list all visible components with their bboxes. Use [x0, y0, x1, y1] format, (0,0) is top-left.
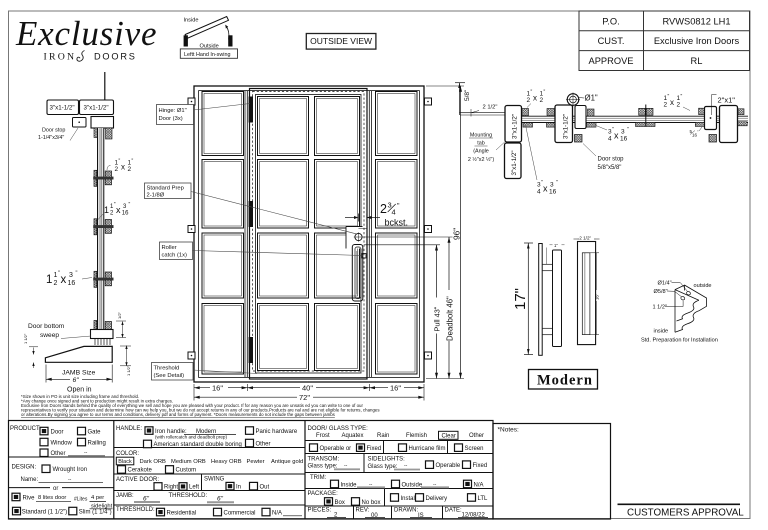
svg-text:72": 72" [299, 393, 310, 402]
right sidelight glass panels [376, 92, 418, 375]
svg-text:1-1/4"x3/4": 1-1/4"x3/4" [38, 135, 64, 141]
2 1/2 dim above front view [574, 238, 600, 240]
left jamb section: header label boxes [47, 100, 114, 115]
label threshold [152, 363, 258, 381]
svg-text:(with rollercatch and deadbolt: (with rollercatch and deadbolt prep) [155, 435, 227, 440]
svg-text:Other: Other [51, 451, 66, 457]
door stop label [38, 128, 78, 142]
hatch cluster 3 [93, 271, 113, 287]
svg-text:96": 96" [451, 228, 461, 240]
svg-text:outside: outside [694, 283, 712, 289]
svg-text:DOOR/ GLASS TYPE:: DOOR/ GLASS TYPE: [308, 426, 369, 432]
svg-text:THRESHOLD:: THRESHOLD: [116, 507, 155, 513]
customers approval [618, 503, 741, 505]
dim deadbolt 46 [448, 237, 450, 379]
svg-text:Frost: Frost [316, 433, 330, 439]
svg-text:DOORS: DOORS [94, 52, 137, 62]
svg-text:or alterations.By signing you: or alterations.By signing you agree to o… [21, 412, 336, 417]
svg-text:THRESHOLD:: THRESHOLD: [169, 493, 208, 499]
svg-text:JAMB:: JAMB: [116, 493, 134, 499]
svg-text:Delivery: Delivery [426, 496, 448, 502]
left sidelight glass panels [202, 92, 244, 375]
svg-text:CUSTOMERS APPROVAL: CUSTOMERS APPROVAL [627, 508, 744, 519]
svg-text:No box: No box [362, 500, 381, 506]
svg-text:PACKAGE:: PACKAGE: [308, 491, 339, 497]
roller catch mark [362, 254, 366, 259]
svg-text:2: 2 [664, 102, 668, 109]
5/16 label [690, 127, 703, 138]
leaf glass panels col2 [315, 97, 360, 371]
mullions [245, 91, 372, 378]
svg-text:x: x [121, 163, 125, 172]
title block [579, 11, 750, 71]
form grid [9, 421, 494, 520]
svg-text:Glass type:: Glass type: [368, 464, 398, 470]
svg-text:REV:: REV: [356, 508, 370, 514]
svg-text:x: x [533, 94, 537, 103]
right jamb small tube 2x1 [705, 107, 717, 130]
svg-text:x: x [116, 205, 121, 215]
svg-text:Threshold: Threshold [154, 366, 180, 372]
svg-text:Custom: Custom [176, 468, 197, 474]
svg-text:4: 4 [537, 189, 541, 196]
mounting tab label [468, 133, 495, 164]
svg-text:bckst.: bckst. [385, 218, 409, 228]
svg-text:--: -- [404, 463, 408, 469]
svg-text:2: 2 [115, 166, 119, 173]
svg-text:x: x [614, 131, 619, 141]
svg-text:Hinge: Ø1": Hinge: Ø1" [159, 108, 187, 114]
svg-text:Door stop: Door stop [42, 128, 65, 134]
svg-text:2: 2 [380, 202, 387, 216]
mounting tabs elevation [188, 98, 432, 359]
svg-text:6": 6" [73, 377, 80, 384]
svg-text:2: 2 [527, 97, 531, 104]
svg-text:inside: inside [654, 329, 669, 335]
svg-text:LTL: LTL [478, 496, 489, 502]
svg-text:Fixed: Fixed [367, 446, 382, 452]
mounting tab angle leg [460, 112, 476, 114]
svg-text:16: 16 [549, 189, 557, 196]
svg-text:Leftt Hand In-swing: Leftt Hand In-swing [184, 52, 230, 58]
svg-text:--: -- [433, 481, 437, 487]
label 1-1/2 x 3/16 (small) [98, 202, 131, 220]
pull handle [352, 245, 363, 302]
svg-text:DRAWN:: DRAWN: [394, 508, 418, 514]
svg-text:1": 1" [554, 243, 558, 248]
svg-text:Right: Right [164, 485, 178, 491]
svg-text:2"x1": 2"x1" [718, 96, 736, 105]
svg-text:16": 16" [212, 384, 223, 393]
svg-text:*Notes:: *Notes: [498, 427, 520, 434]
svg-text:(See Detail): (See Detail) [154, 373, 185, 379]
svg-text:1 1/2": 1 1/2" [23, 333, 28, 344]
svg-text:Standard Prep: Standard Prep [147, 186, 184, 192]
svg-text:HANDLE:: HANDLE: [116, 426, 142, 432]
door bottom sweep label [28, 323, 91, 339]
svg-text:Door bottom: Door bottom [28, 323, 65, 330]
svg-text:Door stop: Door stop [598, 157, 625, 163]
svg-text:5/8": 5/8" [464, 89, 471, 101]
svg-text:In: In [236, 484, 241, 490]
door bottom sweep box [91, 330, 114, 339]
svg-text:--: -- [84, 450, 88, 456]
svg-text:": " [681, 94, 683, 100]
svg-text:Wrought Iron: Wrought Iron [53, 467, 88, 473]
door stop hatched square [575, 135, 583, 143]
Modern box [529, 370, 598, 390]
svg-text:2-1/8Ø: 2-1/8Ø [147, 193, 165, 199]
fine print [21, 394, 380, 417]
svg-text:8 lites door: 8 lites door [38, 495, 66, 501]
svg-text:x: x [670, 98, 674, 107]
notes box [493, 424, 611, 520]
svg-text:16": 16" [390, 384, 401, 393]
svg-text:JAMB Size: JAMB Size [62, 370, 95, 377]
svg-text:3: 3 [621, 129, 625, 136]
mid mullion vline [645, 105, 647, 127]
svg-text:x: x [61, 274, 67, 286]
svg-text:2: 2 [54, 280, 58, 287]
door elevation outer frame [194, 86, 424, 382]
label roller catch [160, 242, 364, 260]
svg-text:Rive: Rive [23, 496, 36, 502]
svg-text:Railing: Railing [88, 441, 106, 447]
svg-text:Door (3x): Door (3x) [159, 116, 183, 122]
svg-text:Roller: Roller [162, 245, 177, 251]
svg-text:Flemish: Flemish [406, 433, 427, 439]
svg-text:Other: Other [469, 433, 484, 439]
svg-text:40": 40" [302, 384, 313, 393]
door leaf [250, 89, 368, 380]
rail horizontal [522, 116, 749, 122]
svg-text:Slim (1 1/4"): Slim (1 1/4") [79, 510, 112, 516]
label 3/4x3/16 top [596, 126, 629, 143]
svg-text:--: -- [344, 463, 348, 469]
svg-text:Other: Other [256, 441, 271, 447]
svg-text:2 1/2": 2 1/2" [579, 236, 591, 241]
svg-text:1: 1 [104, 205, 109, 215]
svg-text:Operable: Operable [436, 463, 461, 469]
svg-text:Door: Door [51, 430, 64, 436]
svg-text:Operable or: Operable or [320, 446, 352, 452]
svg-text:16: 16 [620, 136, 628, 143]
label 1/2x1/2 right [664, 94, 691, 111]
vertical rail [98, 128, 104, 331]
svg-text:Window: Window [51, 441, 73, 447]
svg-text:Clear: Clear [442, 434, 456, 440]
svg-text:Pull 43": Pull 43" [433, 306, 442, 331]
svg-text:N/A: N/A [272, 511, 282, 517]
svg-text:RVWS0812 LH1: RVWS0812 LH1 [662, 16, 730, 26]
svg-text:Box: Box [335, 500, 345, 506]
svg-text:Left: Left [189, 485, 199, 491]
leaf glass panels col1 [258, 97, 309, 371]
svg-text:Inside: Inside [184, 18, 199, 24]
svg-text:Fixed: Fixed [473, 463, 488, 469]
svg-text:Screen: Screen [465, 446, 484, 452]
svg-text:4 per: 4 per [91, 495, 104, 501]
svg-text:IRON: IRON [44, 52, 77, 63]
svg-text:DESIGN:: DESIGN: [12, 465, 37, 471]
svg-text:TRIM:: TRIM: [310, 475, 327, 481]
svg-text:catch (1x): catch (1x) [162, 253, 188, 259]
svg-text:2: 2 [128, 166, 132, 173]
svg-text:1: 1 [54, 272, 58, 279]
svg-text:N/A: N/A [474, 482, 484, 488]
hatch cluster 1 [93, 170, 113, 186]
label 1/2x1/2 [107, 159, 134, 174]
svg-text:Exclusive Iron Doors: Exclusive Iron Doors [654, 36, 740, 46]
svg-text:sweep: sweep [40, 332, 59, 339]
svg-text:APPROVE: APPROVE [589, 56, 634, 66]
svg-text:1 1/2": 1 1/2" [653, 305, 667, 311]
handle side view [539, 244, 562, 356]
svg-text:SWING: SWING [204, 477, 225, 483]
svg-text:1: 1 [46, 274, 52, 286]
svg-text:tab: tab [477, 141, 485, 147]
svg-text:CUST.: CUST. [598, 36, 625, 46]
svg-text:Aquatex: Aquatex [342, 433, 364, 439]
OUTSIDE VIEW label [306, 34, 376, 50]
svg-text:3: 3 [69, 272, 73, 279]
svg-text:16: 16 [68, 280, 76, 287]
backset dim 2-3/4 [345, 214, 380, 229]
svg-text:": " [556, 180, 558, 186]
bottom hatch at rail [94, 321, 97, 330]
svg-text:16: 16 [122, 211, 129, 217]
svg-text:Black: Black [118, 459, 132, 465]
svg-text:17": 17" [512, 288, 529, 310]
hinge circle [567, 94, 579, 106]
right dimension extension lines [364, 86, 465, 379]
label 3/4x3/16 below jamb [526, 125, 559, 196]
svg-text:x: x [543, 184, 548, 194]
svg-text:RL: RL [691, 56, 703, 66]
label 1-1/2 x 3/16 (big) [46, 271, 92, 288]
svg-text:Modern: Modern [537, 373, 593, 389]
svg-text:1/2": 1/2" [117, 311, 122, 319]
svg-text:Cerakote: Cerakote [128, 468, 153, 474]
label hinge [157, 104, 251, 125]
head jamb block [91, 117, 114, 129]
door stop small box [73, 118, 87, 128]
svg-text:Install: Install [401, 496, 417, 502]
svg-text:PIECES:: PIECES: [308, 508, 332, 514]
svg-text:Pewter: Pewter [247, 459, 265, 465]
door knob [354, 232, 363, 241]
svg-text:Outside: Outside [402, 482, 423, 488]
head door stop white box [575, 106, 586, 129]
svg-text:ACTIVE DOOR:: ACTIVE DOOR: [116, 477, 159, 483]
svg-text:Open in: Open in [67, 387, 92, 394]
svg-text:": " [76, 271, 78, 277]
svg-text:Deadbolt 46": Deadbolt 46" [445, 296, 454, 341]
svg-text:Standard (1 1/2"): Standard (1 1/2") [22, 510, 67, 516]
svg-text:2 1/2": 2 1/2" [483, 105, 498, 111]
svg-text:Inside: Inside [341, 482, 358, 488]
in-swing icon [180, 17, 237, 59]
jamb tube boxes [505, 106, 522, 179]
svg-text:--: -- [68, 477, 72, 483]
svg-text:Dark ORB: Dark ORB [140, 459, 167, 465]
svg-text:2: 2 [677, 102, 681, 109]
svg-text:16": 16" [594, 293, 599, 300]
std prep detail [675, 285, 707, 332]
form left column [10, 426, 41, 432]
threshold profile [45, 346, 112, 362]
svg-text:Out: Out [260, 484, 270, 490]
svg-text:": " [627, 127, 629, 133]
svg-text:Residential: Residential [167, 511, 197, 517]
hatch blocks above rail [522, 108, 744, 116]
svg-text:Mounting: Mounting [470, 133, 492, 139]
logo Exclusive [15, 14, 157, 63]
svg-text:Antique gold: Antique gold [271, 459, 303, 465]
svg-text:Panic hardware: Panic hardware [256, 429, 298, 435]
dim pull 43 [436, 245, 438, 379]
label 1/2x1/2 left [527, 90, 546, 108]
svg-text:(Angle: (Angle [473, 149, 489, 155]
svg-text:Ø5/8": Ø5/8" [654, 289, 668, 295]
svg-text:4: 4 [608, 136, 612, 143]
svg-text:Glass type:: Glass type: [308, 464, 338, 470]
handle front view [578, 242, 596, 345]
svg-text:2: 2 [540, 97, 544, 104]
svg-text:3"x1-1/2": 3"x1-1/2" [511, 150, 518, 175]
svg-text:3"x1-1/2": 3"x1-1/2" [50, 105, 75, 112]
hatch cluster 2 [93, 219, 113, 235]
svg-text:": " [129, 202, 131, 208]
right door stop hatched [709, 135, 717, 143]
svg-text:2 ½"x2 ½"): 2 ½"x2 ½") [468, 156, 495, 163]
small dims right of threshold [116, 321, 131, 366]
svg-text:": " [544, 90, 546, 96]
svg-text:Ø1/4": Ø1/4" [658, 281, 672, 287]
hatch strips below rail [523, 122, 747, 127]
svg-text:P.O.: P.O. [602, 16, 619, 26]
line up from head [104, 72, 106, 100]
svg-text:#Lites: #Lites [74, 497, 88, 503]
svg-text:4: 4 [392, 208, 396, 217]
svg-text:DATE:: DATE: [445, 508, 463, 514]
small dims left of threshold [29, 347, 38, 368]
svg-text:American standard double borin: American standard double boring [154, 442, 242, 448]
svg-text:COLOR:: COLOR: [116, 451, 139, 457]
svg-text:1 1/2": 1 1/2" [126, 365, 131, 376]
right big tube [720, 106, 738, 143]
door leaf tube [555, 105, 573, 143]
svg-text:3"x1-1/2": 3"x1-1/2" [84, 105, 109, 112]
label standard prep [145, 183, 357, 234]
svg-text:5/8"x5/8": 5/8"x5/8" [598, 165, 622, 171]
svg-text:SIDELIGHTS:: SIDELIGHTS: [368, 456, 406, 462]
svg-text:Commercial: Commercial [224, 511, 256, 517]
svg-text:": " [132, 159, 134, 165]
lock prep white notch [346, 227, 363, 249]
handle detail 17 dim [524, 243, 533, 355]
svg-text:Std. Preparation for Installat: Std. Preparation for Installation [641, 338, 718, 344]
svg-text:3"x1-1/2": 3"x1-1/2" [512, 114, 519, 139]
top head section: 5/8 dim [455, 83, 465, 115]
svg-text:Name:: Name: [21, 477, 39, 483]
svg-text:Hurricane film: Hurricane film [409, 446, 446, 452]
svg-text:Rain: Rain [377, 433, 389, 439]
svg-text:Heavy ORB: Heavy ORB [211, 459, 242, 465]
svg-text:Ø1": Ø1" [585, 94, 598, 103]
svg-text:or: or [53, 486, 58, 492]
svg-text:3"x1-1/2": 3"x1-1/2" [563, 114, 570, 139]
bottom dimension lines [194, 384, 424, 401]
svg-text:--: -- [369, 481, 373, 487]
svg-text:Medium ORB: Medium ORB [171, 459, 206, 465]
hinges 3x [249, 97, 253, 364]
dim 96 [460, 86, 462, 379]
svg-text:Gate: Gate [88, 430, 102, 436]
svg-text:OUTSIDE VIEW: OUTSIDE VIEW [310, 36, 372, 46]
svg-text:PRODUCT:: PRODUCT: [10, 426, 41, 432]
svg-text:3: 3 [550, 182, 554, 189]
svg-text:TRANSOM:: TRANSOM: [308, 456, 340, 462]
svg-text:Exclusive: Exclusive [15, 14, 157, 53]
